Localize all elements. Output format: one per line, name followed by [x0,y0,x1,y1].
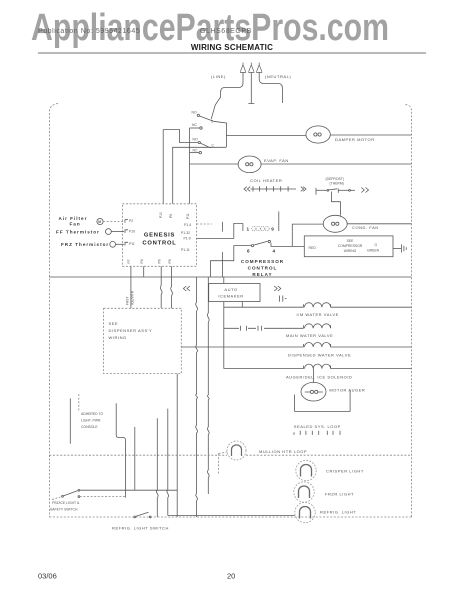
svg-text:P11: P11 [129,242,135,246]
svg-text:RELAY: RELAY [252,272,272,277]
auto icemaker box [209,284,260,302]
wire frz to box [116,243,124,245]
svg-text:P1-4: P1-4 [184,223,191,227]
svg-text:CONSOLE: CONSOLE [81,425,98,429]
svg-text:AUTO: AUTO [224,287,237,292]
svg-text:WIRING: WIRING [109,335,127,340]
svg-text:DAMPER MOTOR: DAMPER MOTOR [335,137,375,142]
dispensed line right [331,346,412,348]
relay coil left tick [242,223,244,231]
air filter fan motor [97,218,103,224]
evap fan motor [238,156,261,173]
svg-text:MAIN WATER VALVE: MAIN WATER VALVE [286,333,333,338]
svg-text:(NEUTRAL): (NEUTRAL) [265,74,291,79]
cond fan motor [323,215,347,232]
svg-text:P10: P10 [129,230,135,234]
svg-text:P10: P10 [159,212,163,218]
wire ground pin stub [248,73,254,104]
wire auger feed [313,369,315,383]
wire drop [221,252,223,277]
title rule [38,52,426,54]
svg-text:RED: RED [309,246,317,250]
svg-text:4: 4 [273,249,277,254]
I/M line right [331,306,412,308]
left annotation wires [69,398,71,443]
wire fan to box [103,221,124,223]
wire defrost drop [332,192,341,216]
plug pin arrow LINE [240,63,246,73]
wire damper right [330,134,411,136]
svg-text:LIGHT. PWR: LIGHT. PWR [81,419,101,423]
svg-text:GENESIS: GENESIS [144,233,175,239]
svg-text:20: 20 [227,572,235,581]
svg-text:I/M WATER VALVE: I/M WATER VALVE [297,312,339,317]
svg-text:NC: NC [192,123,197,127]
switch lower NO contact [198,141,200,143]
cabinet border left [49,104,58,518]
crisper light [296,460,316,480]
wire P10 vertical [162,130,164,204]
auger line right [331,368,412,370]
svg-text:P7: P7 [127,259,131,263]
svg-text:MULLION HTR LOOP: MULLION HTR LOOP [259,449,307,454]
safety switch [52,489,177,499]
svg-text:DISPENSED WATER VALVE: DISPENSED WATER VALVE [288,353,351,358]
wire neutral-in [259,73,282,104]
wire evap right [261,163,411,165]
svg-text:SAFETY SWITCH: SAFETY SWITCH [50,508,78,512]
pin P2 [125,220,128,223]
svg-text:P4: P4 [140,259,144,263]
svg-text:CRISPER LIGHT: CRISPER LIGHT [326,469,364,474]
svg-text:COMPRESSOR: COMPRESSOR [241,259,284,264]
plug pin arrow ground [248,63,254,73]
refrig light [295,502,315,522]
wire lower NC stub [190,152,200,154]
switch lower NC contact [199,151,201,153]
svg-text:FRZR LIGHT: FRZR LIGHT [325,492,354,497]
switch upper C tick [211,119,213,122]
svg-text:DISPENSER ASS'Y: DISPENSER ASS'Y [109,328,153,333]
wire compressor feed [271,243,304,246]
svg-text:M: M [98,220,101,224]
refrig light switch [134,512,151,518]
wire relay 6 feed [211,246,252,277]
pin P11 left [125,242,128,245]
wire to ground [393,248,401,250]
wire cond fan left [292,224,323,246]
chevrons right [274,286,281,291]
svg-text:SEE: SEE [109,321,119,326]
svg-text:(LINE): (LINE) [211,74,226,79]
wire icemaker out [223,302,225,369]
svg-text:WIRING: WIRING [344,249,357,253]
svg-text:1: 1 [247,227,251,232]
svg-text:WIRING SCHEMATIC: WIRING SCHEMATIC [191,43,273,52]
wire ff to box [111,231,124,233]
wire line-in [211,73,243,120]
chevrons [183,286,190,291]
svg-text:SEE: SEE [347,239,355,243]
svg-text:P1-11: P1-11 [181,248,190,252]
I/M water valve line [224,306,304,308]
svg-text:FAST: FAST [126,297,130,305]
svg-text:Publication No: 5995421645: Publication No: 5995421645 [38,28,140,35]
svg-text:P6: P6 [158,259,162,263]
auger solenoid line [224,368,304,370]
genesis control box [122,204,196,266]
svg-text:GREEN: GREEN [367,249,380,253]
svg-text:ICE/WTR: ICE/WTR [131,290,135,305]
svg-text:Air Filter: Air Filter [59,216,88,221]
defrost thermostat switch [316,188,355,195]
main bus [49,276,411,278]
svg-text:COND. FAN: COND. FAN [352,225,379,230]
svg-text:P1-32: P1-32 [181,231,190,235]
dispenser box [104,308,182,373]
ground [401,244,406,252]
wire auger motor loop [295,390,351,411]
wire NC to bus [190,127,200,129]
svg-text:FRZ/ICE LIGHT &: FRZ/ICE LIGHT & [52,501,80,505]
svg-text:NO: NO [193,138,198,142]
wire damper left [226,134,306,136]
coil heater element [244,186,306,191]
defrost right chevrons [361,188,368,193]
compressor box [304,236,393,257]
wire P1-4 stub [197,223,212,225]
dispensed water valve line [181,346,303,348]
auger solenoid coil [304,364,331,369]
svg-text:ICEMAKER: ICEMAKER [218,294,243,299]
svg-text:NO: NO [192,111,197,115]
main water valve coil [304,324,331,329]
relay contact 6 [251,245,253,247]
wire cond fan right [347,223,411,225]
svg-text:GLHS68EGPB: GLHS68EGPB [200,28,252,35]
svg-text:EVAP. FAN: EVAP. FAN [264,158,289,163]
wire refrig left [168,515,295,517]
right buses [196,277,198,517]
svg-text:P6: P6 [169,214,173,218]
switch lower arm [200,143,208,147]
wire switch C to damper bus [213,121,226,147]
switch upper NO contact [197,114,199,116]
wire lower NO feed [163,130,198,143]
wire icemaker out2 [241,302,243,308]
switch lower C tick [208,146,211,149]
connectors on main line [241,326,262,331]
svg-text:Fan: Fan [70,222,81,227]
relay coil [252,227,269,231]
svg-text:6: 6 [247,249,251,254]
svg-text:NC: NC [193,149,198,153]
mullion loop lamp [227,441,246,460]
I/M water valve coil [304,303,331,308]
svg-text:FF Thermistor: FF Thermistor [56,230,100,235]
dashed mullion line [49,454,411,456]
svg-text:P1-9: P1-9 [184,237,191,241]
relay arm [254,241,268,245]
ff thermistor [106,229,112,235]
sealed sys heater [294,431,340,435]
genesis bottom pin wires [130,266,132,308]
switch upper arm [199,116,211,120]
svg-text:P2: P2 [129,219,133,223]
wire coil 9 riser [278,211,280,231]
damper motor [306,126,330,143]
relay contact 4 [268,240,270,242]
svg-text:ADHERED TO: ADHERED TO [81,412,103,416]
main water valve line [224,327,304,329]
pin P10 left [125,230,128,233]
svg-text:FRZ Thermistor: FRZ Thermistor [61,242,109,247]
svg-text:(THERM): (THERM) [330,182,344,186]
wire lower C to P6 [173,147,227,204]
svg-text:COIL HEATER: COIL HEATER [250,178,282,183]
svg-text:G: G [375,243,378,247]
wire stub [221,222,223,232]
wire evap branch [190,163,239,165]
svg-text:9: 9 [271,227,275,232]
svg-text:P11: P11 [186,213,190,219]
wire icemaker feed [223,277,225,284]
mullion feed dashes [219,452,227,474]
cabinet border right [404,105,412,518]
wire evap feed vertical [189,128,191,204]
switch upper NC contact [200,127,202,129]
cabinet border bottom [49,516,411,518]
svg-text:CONTROL: CONTROL [142,241,176,247]
svg-text:AUGER/DEL. ICE SOLENOID: AUGER/DEL. ICE SOLENOID [286,375,352,380]
frzr light [294,482,314,502]
svg-text:COMPRESSOR: COMPRESSOR [338,244,363,248]
wire P1-9 to coil [197,223,243,238]
connector squiggle [160,286,162,295]
frz thermistor [110,241,116,247]
connector symbol [280,296,287,302]
svg-text:MOTOR AUGER: MOTOR AUGER [329,387,365,392]
svg-text:REFRIG. LIGHT SWITCH: REFRIG. LIGHT SWITCH [112,526,169,531]
svg-text:03/06: 03/06 [38,572,57,581]
auger motor [301,382,326,401]
svg-text:SEALED SYS. LOOP: SEALED SYS. LOOP [294,424,341,429]
svg-text:P9: P9 [168,259,172,263]
svg-text:CONTROL: CONTROL [248,266,278,271]
dispensed water valve coil [304,343,331,348]
plug pin arrow NEUTRAL [256,63,262,73]
svg-text:REFRIG. LIGHT: REFRIG. LIGHT [320,510,356,515]
